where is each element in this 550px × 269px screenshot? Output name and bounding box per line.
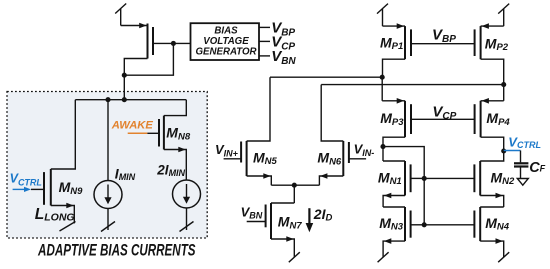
wire gate bus from node N <box>383 147 424 225</box>
node output VCTRL <box>501 148 506 153</box>
node bus tap MN3 MN4 gates <box>422 222 427 227</box>
svg-text:AWAKE: AWAKE <box>111 120 154 132</box>
wire B: MN6 drain to node B <box>321 84 504 86</box>
wire VIN- stub <box>349 158 366 160</box>
node B <box>501 82 506 87</box>
node N cascode left <box>380 144 385 149</box>
wire diode connection gate to drain <box>124 43 173 75</box>
ground below IMIN <box>101 222 115 232</box>
transistor MN8 <box>159 100 186 180</box>
wire AWAKE to MN8 gate (orange then black) <box>128 132 148 134</box>
ground below MN4 <box>498 252 509 262</box>
transistor MN5 <box>241 77 271 185</box>
bias voltage generator box U1 <box>191 23 260 60</box>
transistor MP3 <box>382 77 474 146</box>
supply rail above MP1 <box>377 4 388 27</box>
ground below MN3 <box>378 252 389 262</box>
supply rail above MP2 <box>498 4 509 27</box>
node drain of MP0 <box>122 73 127 78</box>
current arrow 2ID <box>308 208 310 223</box>
adaptive bias currents dashed box <box>7 92 207 239</box>
supply rail top-left <box>115 4 126 26</box>
wire blue VCTRL to CF <box>504 150 521 152</box>
wire drain down into adaptive box <box>123 75 125 100</box>
wire common source node <box>271 184 319 186</box>
wire tail down to MN7 <box>293 185 295 203</box>
transistor MN6 <box>319 85 349 186</box>
node gate of MP0 <box>171 41 176 46</box>
wire VIN+ stub <box>224 158 242 160</box>
ground below MN7 <box>289 252 300 262</box>
transistor MN1 <box>383 147 424 207</box>
node diff pair tail <box>292 183 297 188</box>
svg-text:BIAS: BIAS <box>214 26 238 37</box>
wire VBN output stub <box>259 55 270 57</box>
wire VCTRL blue arrow to MN9 gate <box>13 188 25 190</box>
node A <box>380 75 385 80</box>
transistor MP1 <box>383 23 475 77</box>
ground triangle below CF <box>517 179 528 186</box>
wire VCP output stub <box>259 40 270 42</box>
current source 2IMIN <box>173 180 201 230</box>
svg-text:GENERATOR: GENERATOR <box>196 46 257 57</box>
transistor MN7 <box>266 203 295 257</box>
ground below 2IMIN <box>180 222 194 232</box>
wire A: MN5 drain to node A <box>270 76 382 78</box>
current source IMIN <box>94 100 122 230</box>
svg-text:ADAPTIVE BIAS CURRENTS: ADAPTIVE BIAS CURRENTS <box>37 241 195 259</box>
transistor MP4 <box>475 85 504 151</box>
node MP0 drain tap <box>122 97 127 102</box>
transistor MN3 <box>383 207 424 257</box>
capacitor CF <box>514 151 528 179</box>
wire VBN stub <box>247 221 266 223</box>
transistor MP2 <box>475 23 504 84</box>
node IMIN tap <box>105 97 110 102</box>
transistor MP0 diode-connected PMOS <box>121 23 191 75</box>
wire top rail inside adaptive box <box>75 99 186 101</box>
ground below MN9 <box>60 222 76 232</box>
transistor MN4 <box>424 207 504 257</box>
transistor MN9 <box>44 100 75 224</box>
wire VBP output stub <box>259 26 270 28</box>
node bus tap MN1 MN2 gates <box>422 176 427 181</box>
transistor MN2 <box>424 151 504 207</box>
